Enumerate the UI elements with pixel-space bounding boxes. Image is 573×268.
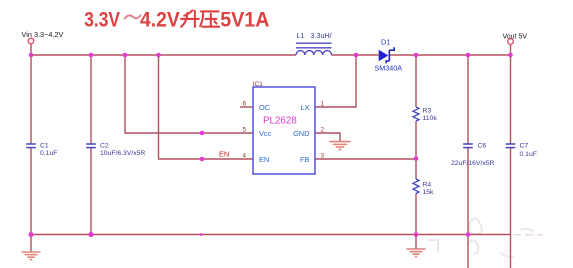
svg-text:110k: 110k xyxy=(423,115,438,122)
svg-text:3.3V: 3.3V xyxy=(84,7,120,31)
svg-text:22uF/16V/x5R: 22uF/16V/x5R xyxy=(451,160,495,167)
svg-text:Vout 5V: Vout 5V xyxy=(503,34,528,41)
svg-text:1: 1 xyxy=(321,101,325,108)
svg-text:GND: GND xyxy=(293,129,309,138)
svg-text:Vin 3.3~4.2V: Vin 3.3~4.2V xyxy=(22,30,64,39)
svg-text:C2: C2 xyxy=(100,143,109,150)
svg-text:R3: R3 xyxy=(423,108,432,115)
svg-text:C7: C7 xyxy=(520,143,529,150)
svg-text:EN: EN xyxy=(259,155,269,164)
svg-text:PL2628: PL2628 xyxy=(263,116,297,127)
svg-text:C1: C1 xyxy=(40,143,49,150)
svg-text:OC: OC xyxy=(259,103,271,112)
svg-text:Vcc: Vcc xyxy=(259,129,272,138)
svg-text:0.1uF: 0.1uF xyxy=(520,151,537,158)
svg-text:3: 3 xyxy=(321,153,325,160)
svg-text:L1 3.3uH/: L1 3.3uH/ xyxy=(297,31,332,40)
svg-text:0.1uF: 0.1uF xyxy=(40,150,57,157)
svg-text:SM340A: SM340A xyxy=(375,64,403,73)
svg-text:15k: 15k xyxy=(423,189,435,196)
svg-text:10uF/6.3V/x5R: 10uF/6.3V/x5R xyxy=(100,150,145,157)
svg-text:C6: C6 xyxy=(478,143,487,150)
svg-text:IC1: IC1 xyxy=(253,81,264,88)
svg-text:FB: FB xyxy=(300,155,310,164)
svg-text:R4: R4 xyxy=(423,182,432,189)
svg-text:5: 5 xyxy=(243,127,247,134)
svg-text:6: 6 xyxy=(243,101,247,108)
svg-text:5V1A: 5V1A xyxy=(220,7,269,31)
svg-text:LX: LX xyxy=(300,103,309,112)
svg-text:EN: EN xyxy=(219,150,229,159)
svg-text:2: 2 xyxy=(321,127,325,134)
svg-text:D1: D1 xyxy=(381,38,390,47)
svg-text:4: 4 xyxy=(243,153,247,160)
svg-text:4.2V: 4.2V xyxy=(140,7,180,31)
